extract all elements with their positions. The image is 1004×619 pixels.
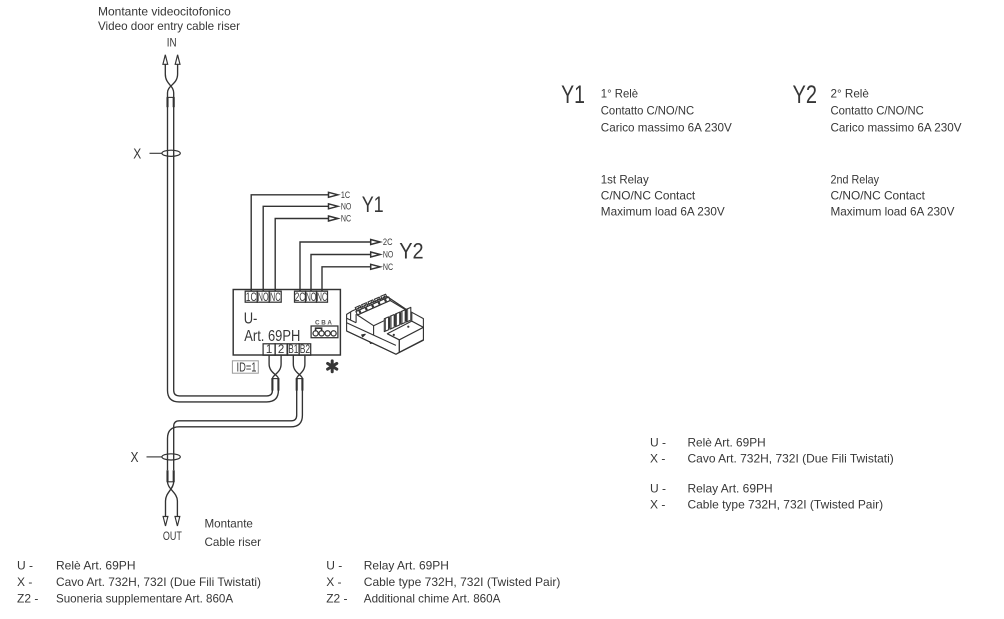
wire: relay Y2 contact NC xyxy=(322,267,371,291)
svg-text:X: X xyxy=(131,449,139,466)
wire: relay Y2 contact NO xyxy=(311,255,371,292)
svg-text:X -: X - xyxy=(17,575,32,589)
X cable marker upper: ellipse xyxy=(162,150,180,156)
svg-text:Y2: Y2 xyxy=(793,81,818,109)
arrow: relay Y1 contact NO xyxy=(329,204,338,209)
jumper pin 3 xyxy=(325,331,330,336)
svg-text:Maximum load 6A 230V: Maximum load 6A 230V xyxy=(601,205,725,219)
wire: riser cable B1-B2 to OUT, inner conductor xyxy=(174,390,297,470)
configuration jumper block xyxy=(311,326,338,338)
svg-text:B: B xyxy=(321,319,326,326)
svg-text:1C: 1C xyxy=(246,290,257,304)
wire: IN cable left conductor arrow xyxy=(163,55,168,65)
svg-text:NO: NO xyxy=(341,201,351,211)
ID=1 configuration box xyxy=(232,361,258,373)
svg-text:Contatto C/NO/NC: Contatto C/NO/NC xyxy=(831,104,925,118)
svg-text:Relay Art. 69PH: Relay Art. 69PH xyxy=(688,481,773,495)
wire: riser cable IN to terminals 1-2, outer conductor xyxy=(168,97,279,402)
svg-text:NC: NC xyxy=(341,214,351,224)
wire: riser cable B1-B2 to OUT, outer conductor xyxy=(168,390,303,470)
svg-text:B2: B2 xyxy=(300,344,310,356)
X cable marker lower: leader line xyxy=(147,456,162,458)
svg-text:NC: NC xyxy=(270,290,281,304)
wire: OUT cable left conductor arrow xyxy=(163,517,168,527)
terminal NC (relay 2 contact) xyxy=(317,291,328,302)
terminal 1C (relay 1 contact) xyxy=(245,291,257,302)
svg-text:U-: U- xyxy=(244,311,258,328)
screw terminal tooth TL1 xyxy=(355,306,361,312)
X cable marker lower: ellipse xyxy=(162,454,180,460)
svg-text:U -: U - xyxy=(650,435,666,449)
svg-text:Z2 -: Z2 - xyxy=(326,591,347,605)
svg-text:Cavo Art. 732H, 732I (Due Fili: Cavo Art. 732H, 732I (Due Fili Twistati) xyxy=(56,575,261,589)
svg-text:Carico massimo 6A 230V: Carico massimo 6A 230V xyxy=(601,121,732,135)
wire: cable jacket sleeve below terminals B1,B2 xyxy=(296,379,298,391)
arrow: relay Y1 contact NC xyxy=(329,216,338,221)
svg-text:X -: X - xyxy=(326,575,341,589)
svg-text:2° Relè: 2° Relè xyxy=(831,87,870,101)
svg-text:1: 1 xyxy=(266,344,272,356)
jumper pin 4 xyxy=(331,331,336,336)
jumper pin 2 xyxy=(319,331,324,336)
svg-text:A: A xyxy=(327,319,332,326)
terminal 1 (bus terminal) xyxy=(263,344,275,355)
svg-text:X: X xyxy=(133,146,141,163)
svg-text:U -: U - xyxy=(17,559,33,573)
svg-text:Video door entry cable riser: Video door entry cable riser xyxy=(98,19,240,33)
svg-text:Cable type 732H, 732I (Twiste: Cable type 732H, 732I (Twisted Pair) xyxy=(364,575,561,589)
wire: riser cable IN to terminals 1-2, inner conductor xyxy=(174,97,273,396)
svg-text:C/NO/NC Contact: C/NO/NC Contact xyxy=(601,189,696,203)
wire: twisted tail to terminals 1,2 xyxy=(272,355,281,378)
screw terminal tooth R2 xyxy=(390,315,394,330)
svg-text:IN: IN xyxy=(167,35,177,49)
screw terminal tooth R5 xyxy=(407,307,411,322)
terminal B1 (bus terminal) xyxy=(288,344,300,355)
terminal NO (relay 1 contact) xyxy=(257,291,269,302)
terminal 2C (relay 2 contact) xyxy=(295,291,306,302)
svg-text:2C: 2C xyxy=(383,237,393,247)
terminal NC (relay 1 contact) xyxy=(269,291,281,302)
terminal 2 (bus terminal) xyxy=(275,344,287,355)
svg-text:1st Relay: 1st Relay xyxy=(601,172,649,186)
svg-text:Art. 69PH: Art. 69PH xyxy=(244,328,300,345)
svg-text:2nd Relay: 2nd Relay xyxy=(831,172,880,186)
svg-text:C/NO/NC Contact: C/NO/NC Contact xyxy=(831,189,926,203)
svg-text:Montante videocitofonico: Montante videocitofonico xyxy=(98,5,231,19)
wire: OUT cable jacket sleeve xyxy=(166,470,168,482)
screw terminal tooth TL5 xyxy=(381,294,387,300)
relay unit U Art. 69PH outline xyxy=(233,290,340,356)
wire: twisted tail to terminals B1,B2 xyxy=(297,355,305,378)
arrow: relay Y2 contact NO xyxy=(371,252,380,257)
svg-text:NO: NO xyxy=(258,290,269,304)
jumper pin 1 xyxy=(313,331,318,336)
svg-text:Y2: Y2 xyxy=(399,239,423,264)
svg-text:Suoneria supplementare Art. 86: Suoneria supplementare Art. 860A xyxy=(56,591,233,605)
screw terminal tooth R3 xyxy=(395,312,399,327)
svg-text:Cable riser: Cable riser xyxy=(205,535,262,549)
svg-text:Relè Art. 69PH: Relè Art. 69PH xyxy=(688,435,766,449)
svg-text:Carico massimo 6A 230V: Carico massimo 6A 230V xyxy=(831,121,962,135)
svg-text:Cable type 732H, 732I (Twiste: Cable type 732H, 732I (Twisted Pair) xyxy=(688,498,884,512)
svg-text:1° Relè: 1° Relè xyxy=(601,87,639,101)
svg-text:Cavo Art. 732H, 732I (Due Fil: Cavo Art. 732H, 732I (Due Fili Twistati) xyxy=(688,451,894,465)
wire: cable jacket sleeve below terminals 1,2 xyxy=(271,379,273,391)
svg-text:NO: NO xyxy=(383,250,393,260)
svg-text:NC: NC xyxy=(383,262,393,272)
arrow: relay Y1 contact 1C xyxy=(329,192,338,197)
svg-text:NO: NO xyxy=(306,290,317,304)
screw terminal tooth TL4 xyxy=(374,297,380,303)
screw terminal tooth R4 xyxy=(401,310,405,325)
svg-text:X -: X - xyxy=(650,451,665,465)
svg-text:Y1: Y1 xyxy=(561,81,585,109)
X cable marker upper: leader line xyxy=(150,152,162,154)
svg-text:Z2 -: Z2 - xyxy=(17,591,38,605)
wire: OUT cable right conductor arrow xyxy=(175,517,180,527)
svg-text:1C: 1C xyxy=(341,190,350,200)
svg-text:Relè Art. 69PH: Relè Art. 69PH xyxy=(56,559,136,573)
svg-text:B1: B1 xyxy=(288,344,298,356)
arrow: relay Y2 contact 2C xyxy=(371,240,380,245)
svg-text:U -: U - xyxy=(326,559,342,573)
svg-text:Montante: Montante xyxy=(205,516,254,530)
wire: relay Y1 contact NC xyxy=(275,219,328,292)
screw terminal tooth TL3 xyxy=(368,300,374,306)
svg-text:NC: NC xyxy=(317,290,328,304)
terminal NO (relay 2 contact) xyxy=(306,291,317,302)
arrow: relay Y2 contact NC xyxy=(371,264,380,269)
svg-text:Maximum load 6A 230V: Maximum load 6A 230V xyxy=(831,205,955,219)
svg-text:Y1: Y1 xyxy=(362,192,384,217)
wire: relay Y2 contact 2C xyxy=(300,242,371,291)
svg-text:X -: X - xyxy=(650,498,665,512)
wire: IN cable jacket sleeve xyxy=(166,97,168,107)
terminal B2 (bus terminal) xyxy=(299,344,311,355)
svg-text:Contatto C/NO/NC: Contatto C/NO/NC xyxy=(601,104,695,118)
svg-text:2: 2 xyxy=(278,344,284,356)
3D pictorial view of relay module Art. 69PH xyxy=(347,294,424,354)
wire: OUT twisted-pair cross and split xyxy=(168,482,178,517)
wire: relay Y1 contact NO xyxy=(263,206,328,291)
svg-text:ID=1: ID=1 xyxy=(237,360,257,374)
asterisk footnote marker xyxy=(328,361,337,372)
svg-text:OUT: OUT xyxy=(163,529,182,543)
svg-text:2C: 2C xyxy=(295,290,306,304)
wire: IN cable jacket collar xyxy=(167,96,175,98)
screw terminal tooth R1 xyxy=(384,317,388,332)
wire: IN cable right conductor arrow xyxy=(175,55,180,65)
wire: relay Y1 contact 1C xyxy=(251,195,328,291)
svg-text:C: C xyxy=(315,319,320,326)
svg-text:Relay Art. 69PH: Relay Art. 69PH xyxy=(364,559,449,573)
svg-text:Additional chime Art. 860A: Additional chime Art. 860A xyxy=(364,591,501,605)
screw terminal tooth TL2 xyxy=(362,303,368,309)
svg-text:U -: U - xyxy=(650,481,666,495)
jumper cap bridging pins 1-2 xyxy=(316,328,322,331)
wire: IN twisted-pair split and cross xyxy=(165,64,173,97)
